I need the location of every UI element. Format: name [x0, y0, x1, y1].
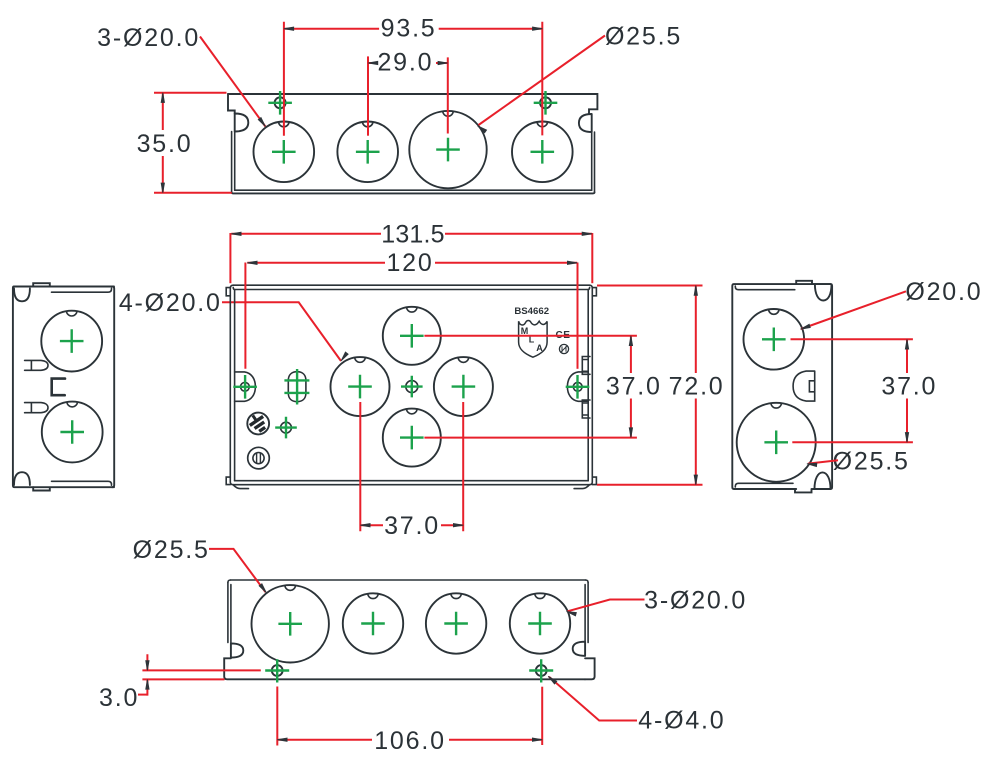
106.0 extension line right	[541, 687, 543, 745]
top view right wall	[592, 132, 595, 192]
leader dia25.5 bottom	[209, 549, 266, 592]
leader arrow 4-dia20.0	[341, 352, 348, 361]
106.0 extension line left	[276, 687, 278, 746]
bottom view top corners	[228, 580, 588, 583]
main view screw pocket right	[567, 372, 588, 401]
svg-text:Ø25.5: Ø25.5	[605, 22, 682, 50]
right view bottom lug	[795, 489, 812, 492]
main view right wall	[588, 288, 592, 483]
left view knockout top (20mm)	[41, 311, 102, 372]
bottom view knockout 4 (20mm)	[510, 593, 570, 653]
93.5 left arrow	[284, 27, 294, 30]
left view right edge	[112, 287, 114, 488]
top view outline left step	[228, 94, 235, 114]
3.0 leader hook	[138, 694, 147, 696]
29.0 dimension line	[368, 62, 448, 64]
35.0 top arrow	[161, 93, 164, 103]
main view lug top-left	[226, 288, 230, 296]
main view bottom edges	[233, 481, 590, 485]
main view screw pocket left	[235, 372, 256, 401]
left view knockout bottom crosshair	[60, 420, 84, 444]
main view knockout left (20mm) tab notch	[355, 357, 366, 362]
leader dia20.0 right	[801, 291, 906, 329]
main view lug bottom-left	[226, 477, 230, 485]
leader 4-dia4.0	[549, 677, 637, 721]
svg-text:35.0: 35.0	[137, 130, 193, 158]
right view knockout bottom (25.5mm)	[737, 403, 816, 482]
main view screw hole left	[241, 382, 250, 391]
93.5 extension line left	[283, 22, 285, 136]
main view knockout left (20mm)	[331, 357, 390, 416]
right view bottom corner bump	[815, 472, 831, 488]
right view outline left edge	[732, 284, 796, 489]
3.0 extension line top	[142, 669, 260, 671]
bottom view knockout 1 (25.5mm) tab notch	[285, 585, 296, 590]
top view knockout 3 (25.5mm) crosshair	[436, 138, 460, 162]
svg-text:Ø25.5: Ø25.5	[833, 447, 910, 475]
left view knockout bottom (25.5mm)	[42, 402, 103, 463]
bottom view screw hole left crosshair	[265, 659, 289, 682]
earth symbol strokes	[246, 411, 269, 434]
bottom view right wall	[585, 583, 588, 643]
main view knockout bottom (20mm) tab notch	[407, 409, 418, 414]
main view knockout top (20mm) crosshair	[400, 324, 424, 348]
93.5 dimension line	[284, 28, 542, 30]
left view top edge and lug	[33, 283, 114, 286]
37.0 right extension top	[791, 338, 913, 340]
left view adjustable lug bottom	[25, 403, 48, 413]
svg-text:Ø20.0: Ø20.0	[905, 278, 982, 306]
svg-text:M: M	[521, 326, 529, 336]
72.0 extension line bottom	[597, 484, 703, 486]
35.0 bottom arrow	[161, 183, 164, 193]
right view top inner band	[735, 286, 795, 290]
bottom view knockout 2 (20mm) tab notch	[368, 593, 379, 598]
131.5 dimension line	[231, 233, 592, 235]
main view center hole	[406, 381, 418, 393]
main view knockout bottom (20mm)	[383, 409, 441, 467]
top view knockout 1 (20mm) crosshair	[272, 140, 296, 164]
37.0 bottom right arrow	[453, 524, 463, 527]
120 extension line left	[244, 263, 246, 369]
37.0 bottom extension line right	[462, 402, 464, 531]
top view knockout 3 (25.5mm)	[409, 111, 486, 188]
screw head slot lines	[257, 453, 261, 463]
top view left wall	[232, 132, 235, 193]
bottom view knockout 1 (25.5mm)	[252, 585, 329, 662]
bottom view knockout 4 (20mm) tab notch	[535, 593, 546, 598]
35.0 extension line bottom	[154, 192, 232, 194]
main view center hole crosshair	[401, 376, 423, 398]
top view knockout 2 (20mm) tab notch	[362, 122, 373, 127]
top view knockout 1 (20mm) tab notch	[279, 122, 290, 127]
svg-text:3-Ø20.0: 3-Ø20.0	[97, 24, 200, 52]
svg-text:29.0: 29.0	[377, 48, 433, 76]
right view knockout top tab notch	[769, 309, 780, 314]
right view top corner bump	[815, 284, 832, 300]
3.0 lower arrow	[146, 679, 149, 689]
top view screw hole right crosshair	[534, 91, 558, 115]
top view outline top edge	[228, 94, 597, 114]
35.0 extension line top	[154, 92, 227, 94]
37.0 top arrow	[629, 336, 632, 346]
left view bottom edge and lug	[33, 487, 114, 490]
106.0 left arrow	[277, 738, 287, 741]
svg-text:BS4662: BS4662	[514, 306, 549, 317]
top view knockout 2 (20mm)	[337, 122, 398, 183]
37.0 bottom arrow	[629, 428, 632, 438]
37.0 right extension bottom	[792, 441, 913, 443]
bottom view knockout 3 (20mm) crosshair	[444, 612, 468, 636]
37.0 bottom dimension line	[360, 524, 463, 526]
right view knockout top crosshair	[762, 328, 786, 352]
bottom view knockout 1 (25.5mm) crosshair	[278, 612, 302, 636]
main view right wall tab upper	[582, 357, 590, 375]
svg-text:3-Ø20.0: 3-Ø20.0	[644, 586, 747, 614]
bottom view left cable bump	[231, 643, 243, 657]
top view knockout 3 (25.5mm) tab notch	[443, 111, 454, 116]
svg-text:A: A	[536, 343, 543, 353]
BSI shield	[519, 320, 548, 357]
top view right cable bump	[579, 114, 592, 132]
main view vertical slot crosshair	[284, 369, 309, 405]
top view screw hole left	[275, 97, 286, 108]
top view screw hole right	[540, 97, 551, 108]
leader arrow dia20.0 right	[801, 324, 811, 329]
top view bottom inner edge	[235, 189, 592, 191]
svg-text:120: 120	[386, 249, 433, 277]
37.0 right dimension line	[906, 339, 908, 442]
right view knockout bottom tab notch	[771, 403, 782, 408]
bottom view bottom edge and left tab	[224, 658, 585, 679]
left view knockout top tab notch	[66, 311, 77, 316]
72.0 bottom arrow	[694, 475, 697, 485]
svg-text:4-Ø20.0: 4-Ø20.0	[119, 289, 222, 317]
main view lug top-right	[592, 288, 596, 296]
right view outline right edge	[796, 284, 832, 489]
left view clamp bracket	[52, 379, 65, 396]
left view knockout top crosshair	[60, 329, 84, 353]
top view knockout 4 (20mm)	[512, 122, 573, 183]
leader 4-dia20.0	[222, 302, 341, 361]
top view knockout 1 (20mm)	[253, 122, 314, 183]
main view screw hole right crosshair	[566, 375, 590, 399]
leader dia25.5 top	[479, 36, 606, 126]
main view screw hole left crosshair	[233, 375, 257, 399]
bottom view knockout 3 (20mm)	[426, 593, 486, 653]
37.0 right top arrow	[905, 339, 908, 349]
left view outline left edge	[13, 287, 33, 488]
37.0 extension line from bottom knockout	[424, 437, 637, 439]
72.0 dimension line	[695, 286, 697, 485]
right view clamp	[793, 371, 815, 401]
top view knockout 4 (20mm) tab notch	[537, 122, 548, 127]
bottom view knockout 4 (20mm) crosshair	[528, 612, 552, 636]
bottom view top edge and left wall	[228, 580, 586, 643]
29.0 extension line right	[447, 57, 449, 133]
top view screw hole left crosshair	[268, 91, 292, 115]
leader 3-dia20.0 top	[200, 37, 265, 127]
right view knockout bottom crosshair	[764, 431, 788, 455]
main view vertical slot	[288, 372, 306, 402]
top view knockout 2 (20mm) crosshair	[356, 140, 380, 164]
main view bottom corners	[230, 482, 592, 485]
leader arrow 4-dia4.0	[548, 676, 557, 684]
72.0 extension line top	[597, 285, 703, 287]
main view right wall tab lower	[582, 400, 590, 418]
top view knockout 4 (20mm) crosshair	[531, 140, 555, 164]
131.5 left arrow	[231, 232, 241, 235]
29.0 left arrow	[368, 61, 378, 64]
main view knockout left (20mm) crosshair	[348, 375, 372, 399]
bottom view knockout 2 (20mm) crosshair	[361, 612, 385, 636]
main view foot bottom-left	[233, 485, 249, 489]
left view knockout bottom tab notch	[67, 402, 78, 407]
leader arrow dia25.5 right	[807, 463, 817, 467]
svg-text:72.0: 72.0	[669, 373, 725, 401]
left view adjustable lug top	[25, 360, 48, 370]
bottom view screw hole right	[536, 665, 547, 676]
120 extension line right	[577, 263, 579, 369]
svg-text:131.5: 131.5	[381, 221, 445, 249]
bottom view knockout 3 (20mm) tab notch	[451, 593, 462, 598]
leader arrow 3-dia20.0 top	[258, 118, 265, 127]
main view pilot hole	[281, 422, 292, 433]
svg-text:4-Ø4.0: 4-Ø4.0	[638, 706, 725, 734]
svg-text:37.0: 37.0	[384, 512, 440, 540]
main view foot bottom-right	[574, 485, 590, 489]
approval circle glyph	[562, 346, 567, 351]
main view knockout bottom (20mm) crosshair	[400, 426, 424, 450]
bottom view screw hole right crosshair	[529, 659, 553, 682]
left view top corner bump	[14, 289, 30, 302]
svg-text:106.0: 106.0	[374, 727, 446, 755]
svg-text:37.0: 37.0	[881, 373, 937, 401]
37.0 right bottom arrow	[905, 433, 908, 443]
screw head outer circle	[248, 447, 270, 469]
left view bottom inner band	[52, 481, 112, 485]
screw head inner circle	[253, 453, 264, 464]
37.0 bottom extension line left	[359, 402, 361, 531]
main view screw hole right	[573, 382, 582, 391]
main view top-left corner join	[230, 285, 234, 289]
bottom view right tab	[585, 658, 595, 679]
106.0 right arrow	[532, 738, 542, 741]
72.0 top arrow	[694, 286, 697, 296]
main view knockout right (20mm)	[434, 357, 493, 416]
leader arrow dia25.5 bottom	[259, 584, 266, 593]
3.0 extension line bottom	[142, 678, 224, 680]
bottom view screw hole left	[272, 665, 283, 676]
main view top and left walls	[230, 285, 589, 482]
131.5 extension line right	[591, 233, 593, 283]
120 right arrow	[567, 261, 577, 264]
top view left cable bump	[235, 114, 249, 132]
top view bottom outer edge	[232, 192, 595, 193]
37.0 extension line from top knockout	[424, 335, 637, 337]
29.0 extension line left	[367, 56, 369, 135]
main view knockout right (20mm) crosshair	[452, 375, 476, 399]
left view top inner band	[52, 288, 112, 292]
131.5 right arrow	[582, 232, 592, 235]
106.0 dimension line	[277, 739, 542, 741]
right view bottom inner band	[735, 483, 793, 487]
main view knockout right (20mm) tab notch	[458, 357, 469, 362]
131.5 extension line left	[229, 233, 231, 283]
3.0 dimension line	[146, 654, 148, 695]
approval circle mark	[559, 344, 568, 353]
35.0 dimension line	[162, 93, 164, 193]
main view lug bottom-right	[592, 477, 596, 485]
right view top lug	[796, 281, 830, 284]
main view inner top edge	[235, 285, 593, 289]
120 dimension line	[247, 262, 577, 264]
left view bottom corner bump	[14, 472, 30, 485]
svg-text:37.0: 37.0	[606, 373, 662, 401]
37.0 vertical dimension line	[630, 336, 632, 438]
leader arrow dia25.5 top	[478, 126, 487, 133]
leader arrow 3-dia20.0 bottom	[567, 612, 577, 616]
bottom view right cable bump	[573, 642, 585, 656]
svg-text:Ø25.5: Ø25.5	[133, 536, 210, 564]
37.0 bottom left arrow	[360, 524, 370, 527]
bottom view knockout 2 (20mm)	[343, 593, 403, 653]
right view clamp notch	[809, 381, 814, 392]
leader 3-dia20.0 bottom	[568, 600, 645, 612]
main view pilot hole crosshair	[275, 417, 297, 439]
earth symbol circle	[247, 413, 269, 435]
right view knockout top (20mm)	[744, 309, 805, 370]
93.5 right arrow	[533, 27, 543, 30]
main view knockout top (20mm) tab notch	[407, 307, 418, 312]
svg-text:3.0: 3.0	[99, 684, 139, 712]
svg-text:93.5: 93.5	[381, 14, 437, 42]
3.0 upper arrow	[146, 661, 149, 671]
93.5 extension line right	[541, 22, 543, 136]
29.0 right arrow	[438, 61, 448, 64]
main view knockout top (20mm)	[383, 307, 441, 365]
120 left arrow	[247, 261, 257, 264]
leader dia25.5 right	[808, 460, 838, 463]
